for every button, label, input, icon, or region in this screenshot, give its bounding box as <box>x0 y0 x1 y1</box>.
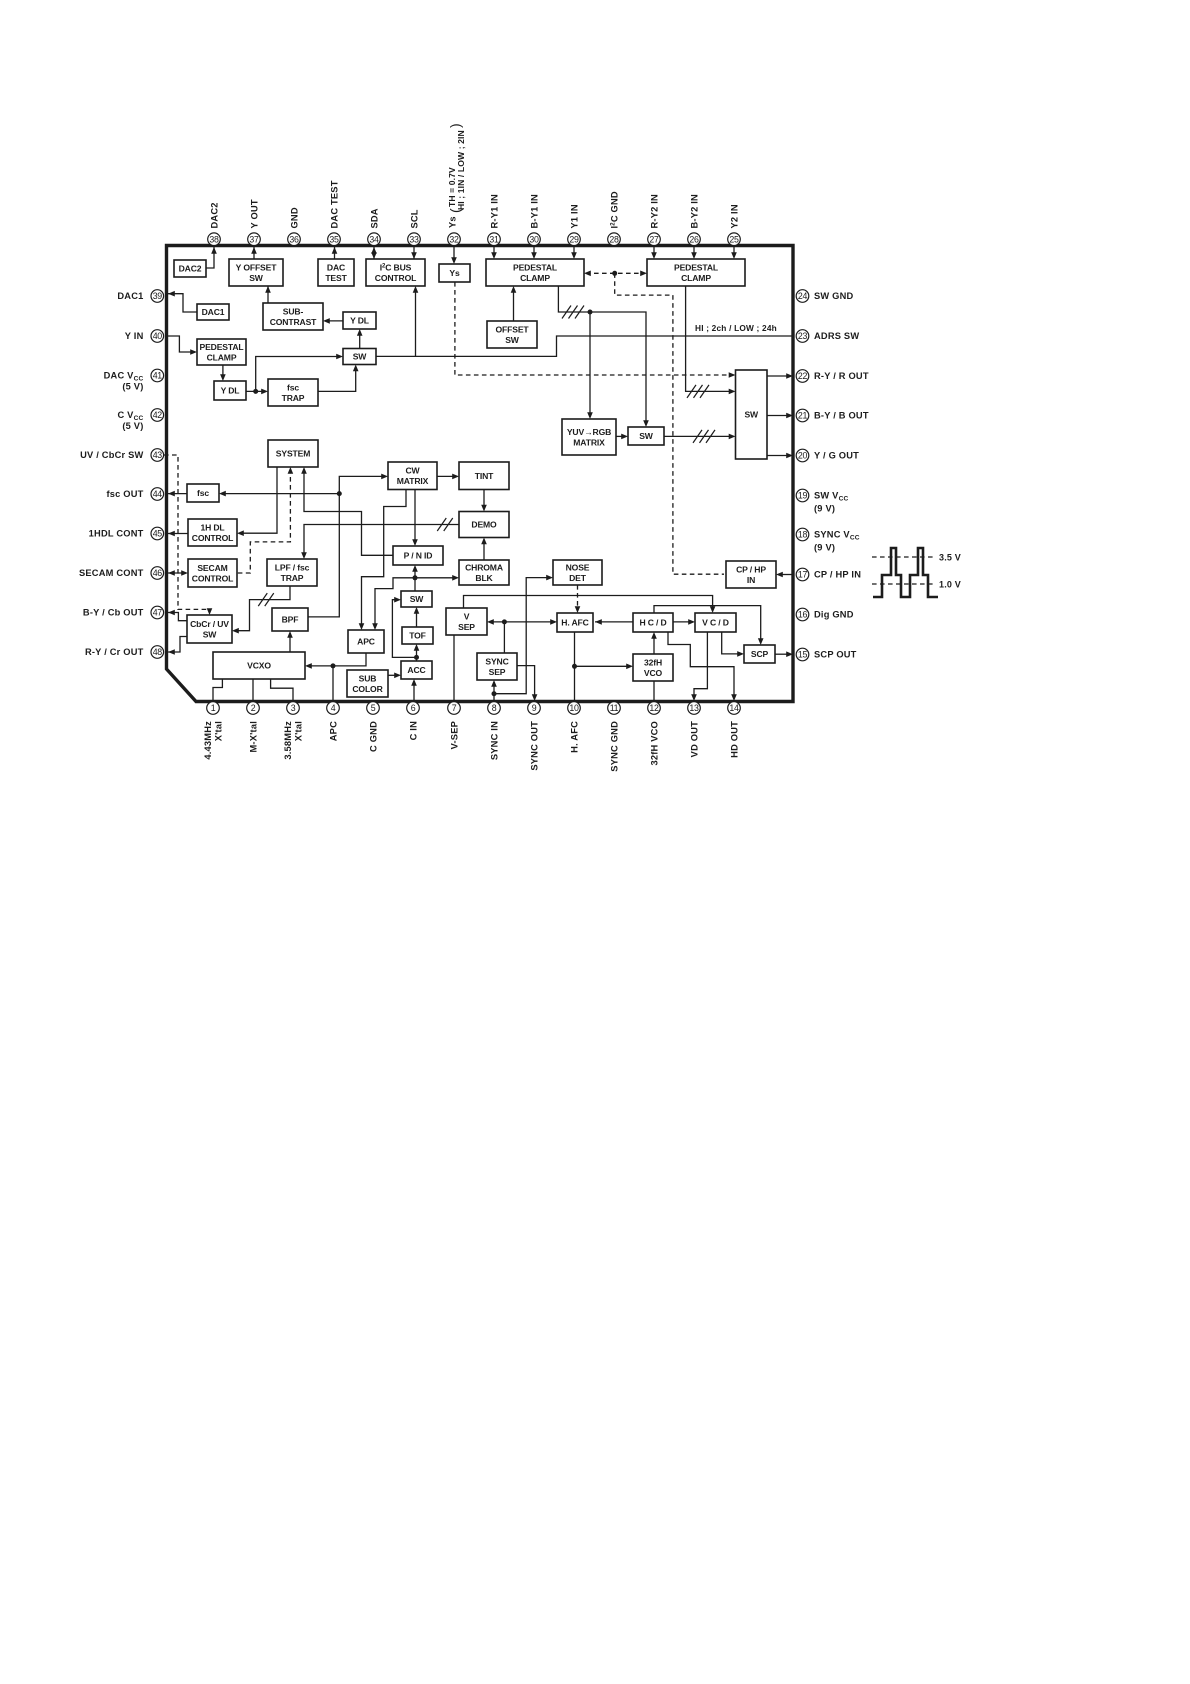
svg-text:TEST: TEST <box>325 273 347 283</box>
svg-text:5: 5 <box>371 703 376 713</box>
svg-text:SEP: SEP <box>489 667 506 677</box>
svg-text:41: 41 <box>153 371 163 381</box>
svg-text:48: 48 <box>153 647 163 657</box>
svg-text:SCP: SCP <box>751 649 769 659</box>
svg-text:SCL: SCL <box>409 209 419 228</box>
svg-text:APC: APC <box>328 721 338 741</box>
svg-text:X'tal: X'tal <box>294 721 304 741</box>
svg-text:17: 17 <box>798 570 808 580</box>
svg-text:SYNC IN: SYNC IN <box>489 721 499 760</box>
svg-text:1HDL CONT: 1HDL CONT <box>89 529 144 539</box>
svg-text:SYNC GND: SYNC GND <box>609 721 619 772</box>
svg-text:R-Y1 IN: R-Y1 IN <box>489 194 499 229</box>
svg-text:CW: CW <box>405 466 420 476</box>
svg-text:1: 1 <box>211 703 216 713</box>
svg-text:18: 18 <box>798 530 808 540</box>
svg-text:SECAM CONT: SECAM CONT <box>79 568 144 578</box>
svg-text:36: 36 <box>289 234 299 244</box>
svg-text:15: 15 <box>798 650 808 660</box>
svg-text:13: 13 <box>689 703 699 713</box>
svg-text:SW: SW <box>353 352 368 362</box>
svg-text:Ys: Ys <box>448 216 458 228</box>
svg-text:SUB: SUB <box>359 673 377 683</box>
svg-text:Y / G OUT: Y / G OUT <box>814 451 859 461</box>
svg-text:1H DL: 1H DL <box>200 522 224 532</box>
svg-text:6: 6 <box>411 703 416 713</box>
svg-text:28: 28 <box>609 234 619 244</box>
svg-text:HI ; 1IN / LOW ; 2IN: HI ; 1IN / LOW ; 2IN <box>456 130 466 210</box>
svg-text:CLAMP: CLAMP <box>681 273 711 283</box>
svg-text:10: 10 <box>569 703 579 713</box>
svg-text:B-Y / B OUT: B-Y / B OUT <box>814 411 869 421</box>
svg-text:21: 21 <box>798 411 808 421</box>
svg-text:fsc OUT: fsc OUT <box>106 489 143 499</box>
svg-text:ACC: ACC <box>407 665 425 675</box>
svg-text:Y1 IN: Y1 IN <box>569 204 579 228</box>
svg-text:47: 47 <box>153 608 163 618</box>
svg-text:P / N ID: P / N ID <box>404 551 433 561</box>
svg-text:37: 37 <box>249 234 259 244</box>
svg-text:Y2 IN: Y2 IN <box>729 204 739 228</box>
svg-text:34: 34 <box>369 234 379 244</box>
svg-text:HI ; 2ch / LOW ; 24h: HI ; 2ch / LOW ; 24h <box>695 323 777 333</box>
svg-text:14: 14 <box>729 703 739 713</box>
svg-text:Y DL: Y DL <box>221 386 240 396</box>
svg-text:26: 26 <box>689 234 699 244</box>
svg-text:R-Y / Cr OUT: R-Y / Cr OUT <box>85 647 144 657</box>
svg-text:22: 22 <box>798 371 808 381</box>
svg-text:SUB-: SUB- <box>283 306 304 316</box>
svg-text:VCXO: VCXO <box>247 661 271 671</box>
svg-text:COLOR: COLOR <box>352 684 383 694</box>
svg-text:B-Y / Cb OUT: B-Y / Cb OUT <box>83 608 144 618</box>
svg-text:H C / D: H C / D <box>639 618 666 628</box>
svg-text:19: 19 <box>798 491 808 501</box>
svg-text:43: 43 <box>153 450 163 460</box>
svg-text:H. AFC: H. AFC <box>569 721 579 753</box>
svg-text:DET: DET <box>569 573 587 583</box>
svg-text:2: 2 <box>251 703 256 713</box>
svg-text:27: 27 <box>649 234 659 244</box>
svg-text:24: 24 <box>798 291 808 301</box>
svg-text:(9 V): (9 V) <box>814 543 835 553</box>
svg-text:LPF / fsc: LPF / fsc <box>275 562 310 572</box>
svg-text:BPF: BPF <box>282 615 299 625</box>
svg-text:B-Y1 IN: B-Y1 IN <box>529 194 539 229</box>
svg-text:(5 V): (5 V) <box>122 382 143 392</box>
svg-text:SW: SW <box>203 629 218 639</box>
svg-text:42: 42 <box>153 410 163 420</box>
svg-text:45: 45 <box>153 529 163 539</box>
svg-text:DAC2: DAC2 <box>179 264 202 274</box>
svg-text:11: 11 <box>610 703 619 713</box>
svg-text:I2C GND: I2C GND <box>609 191 619 228</box>
svg-text:HD OUT: HD OUT <box>729 721 739 758</box>
svg-text:SEP: SEP <box>458 622 475 632</box>
svg-text:ADRS SW: ADRS SW <box>814 331 859 341</box>
svg-text:SW: SW <box>505 335 520 345</box>
svg-text:DAC1: DAC1 <box>117 291 143 301</box>
svg-text:DEMO: DEMO <box>471 520 497 530</box>
svg-text:SW: SW <box>410 594 425 604</box>
svg-text:OFFSET: OFFSET <box>496 324 530 334</box>
svg-text:3.5 V: 3.5 V <box>939 553 961 563</box>
svg-text:CONTROL: CONTROL <box>192 573 233 583</box>
svg-text:SECAM: SECAM <box>197 563 227 573</box>
svg-text:8: 8 <box>492 703 497 713</box>
svg-text:DAC1: DAC1 <box>202 307 225 317</box>
svg-text:44: 44 <box>153 489 163 499</box>
svg-text:CLAMP: CLAMP <box>207 352 237 362</box>
svg-text:33: 33 <box>409 234 419 244</box>
svg-text:32: 32 <box>449 234 459 244</box>
svg-text:12: 12 <box>649 703 659 713</box>
svg-text:PEDESTAL: PEDESTAL <box>199 342 243 352</box>
svg-text:23: 23 <box>798 331 808 341</box>
svg-text:YUV→RGB: YUV→RGB <box>567 427 611 437</box>
svg-text:32fH: 32fH <box>644 657 662 667</box>
svg-text:Y IN: Y IN <box>125 331 144 341</box>
svg-text:CHROMA: CHROMA <box>465 562 503 572</box>
svg-text:fsc: fsc <box>197 488 209 498</box>
svg-text:APC: APC <box>357 637 375 647</box>
svg-text:31: 31 <box>489 234 499 244</box>
svg-text:TOF: TOF <box>409 631 426 641</box>
svg-text:MATRIX: MATRIX <box>573 437 605 447</box>
svg-text:B-Y2 IN: B-Y2 IN <box>689 194 699 229</box>
svg-text:40: 40 <box>153 331 163 341</box>
svg-text:C GND: C GND <box>368 721 378 752</box>
svg-text:V: V <box>464 611 470 621</box>
svg-text:BLK: BLK <box>475 573 493 583</box>
svg-text:CLAMP: CLAMP <box>520 273 550 283</box>
svg-text:SW: SW <box>639 431 654 441</box>
svg-text:fsc: fsc <box>287 382 299 392</box>
svg-text:(5 V): (5 V) <box>122 421 143 431</box>
svg-text:GND: GND <box>289 207 299 228</box>
svg-text:25: 25 <box>729 234 739 244</box>
svg-text:DAC2: DAC2 <box>209 202 219 228</box>
svg-text:V C / D: V C / D <box>702 618 729 628</box>
svg-text:7: 7 <box>452 703 457 713</box>
svg-text:SYNC: SYNC <box>485 656 508 666</box>
svg-text:29: 29 <box>569 234 579 244</box>
svg-text:CP / HP: CP / HP <box>736 564 766 574</box>
svg-text:M-X'tal: M-X'tal <box>248 721 258 753</box>
svg-text:CONTROL: CONTROL <box>192 533 233 543</box>
svg-text:Y OUT: Y OUT <box>249 199 259 228</box>
svg-text:MATRIX: MATRIX <box>397 476 429 486</box>
svg-text:3: 3 <box>291 703 296 713</box>
svg-text:SDA: SDA <box>369 208 379 228</box>
svg-text:TRAP: TRAP <box>281 573 304 583</box>
svg-text:DAC: DAC <box>327 262 345 272</box>
svg-text:DAC TEST: DAC TEST <box>329 180 339 228</box>
svg-text:4.43MHz: 4.43MHz <box>203 721 213 760</box>
svg-text:): ) <box>447 123 463 128</box>
svg-text:1.0 V: 1.0 V <box>939 580 961 590</box>
svg-text:38: 38 <box>209 234 219 244</box>
svg-text:9: 9 <box>532 703 537 713</box>
svg-text:TRAP: TRAP <box>282 393 305 403</box>
svg-text:PEDESTAL: PEDESTAL <box>513 262 557 272</box>
svg-text:VCO: VCO <box>644 668 663 678</box>
svg-text:VD OUT: VD OUT <box>689 721 699 757</box>
svg-text:SW: SW <box>744 410 759 420</box>
svg-text:SYNC OUT: SYNC OUT <box>529 721 539 771</box>
svg-text:V-SEP: V-SEP <box>449 721 459 749</box>
svg-text:NOSE: NOSE <box>566 562 590 572</box>
svg-text:35: 35 <box>329 234 339 244</box>
svg-text:SW GND: SW GND <box>814 291 854 301</box>
svg-text:Ys: Ys <box>449 268 460 278</box>
svg-text:16: 16 <box>798 610 808 620</box>
svg-text:SCP OUT: SCP OUT <box>814 650 857 660</box>
svg-text:CP / HP IN: CP / HP IN <box>814 570 861 580</box>
svg-text:UV / CbCr SW: UV / CbCr SW <box>80 450 143 460</box>
svg-text:CbCr / UV: CbCr / UV <box>190 619 229 629</box>
svg-text:46: 46 <box>153 568 163 578</box>
svg-text:3.58MHz: 3.58MHz <box>283 721 293 760</box>
svg-text:H. AFC: H. AFC <box>561 618 588 628</box>
svg-text:I2C BUS: I2C BUS <box>380 262 412 272</box>
svg-text:R-Y / R OUT: R-Y / R OUT <box>814 371 869 381</box>
svg-text:30: 30 <box>529 234 539 244</box>
svg-text:32fH VCO: 32fH VCO <box>649 721 659 765</box>
svg-text:PEDESTAL: PEDESTAL <box>674 262 718 272</box>
svg-text:SYSTEM: SYSTEM <box>276 449 310 459</box>
svg-text:CONTRAST: CONTRAST <box>270 317 317 327</box>
svg-text:TINT: TINT <box>475 471 494 481</box>
svg-text:39: 39 <box>153 291 163 301</box>
svg-text:IN: IN <box>747 575 755 585</box>
svg-text:R-Y2 IN: R-Y2 IN <box>649 194 659 229</box>
svg-text:C IN: C IN <box>408 721 418 740</box>
svg-text:20: 20 <box>798 451 808 461</box>
svg-text:Y OFFSET: Y OFFSET <box>236 262 278 272</box>
svg-text:Y DL: Y DL <box>350 316 369 326</box>
svg-text:(9 V): (9 V) <box>814 504 835 514</box>
svg-text:SW: SW <box>249 273 264 283</box>
svg-text:X'tal: X'tal <box>214 721 224 741</box>
svg-text:Dig GND: Dig GND <box>814 610 854 620</box>
svg-text:CONTROL: CONTROL <box>375 273 416 283</box>
svg-text:4: 4 <box>331 703 336 713</box>
